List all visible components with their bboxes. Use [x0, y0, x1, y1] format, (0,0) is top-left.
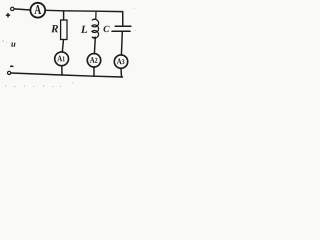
capacitor C bottom plate	[112, 30, 130, 32]
wire: top rail from A to C corner	[45, 10, 122, 11]
label A (ammeter)	[34, 5, 41, 14]
scan speckles	[2, 8, 135, 87]
label u	[11, 43, 15, 47]
label A3	[117, 58, 125, 64]
ammeter A2	[87, 54, 100, 67]
wire: R branch top stub	[63, 11, 65, 20]
ammeter A3	[114, 55, 127, 68]
label -	[10, 65, 13, 67]
wire: top terminal to ammeter A	[14, 9, 30, 10]
label A2	[90, 57, 98, 63]
terminal circle + (top-left)	[11, 7, 14, 10]
terminal circle - (bottom-left)	[8, 71, 11, 74]
wire: bottom rail	[11, 73, 123, 77]
label L	[81, 26, 87, 33]
label A1	[57, 56, 64, 62]
wire: L branch top stub + inductor L coil	[92, 11, 99, 38]
label +	[6, 13, 10, 17]
resistor R	[61, 20, 67, 40]
wire: L bottom to A2	[93, 37, 96, 53]
wire: A3 bottom stub to rail	[120, 68, 123, 77]
wire: A1 bottom stub to rail	[61, 66, 63, 75]
label R	[51, 25, 58, 32]
ammeter A1	[55, 52, 69, 66]
wire: C bottom to A3	[120, 32, 123, 55]
ammeter U1 A	[30, 3, 45, 18]
wire: A2 bottom stub to rail	[93, 67, 95, 76]
wire: R bottom to A1	[62, 40, 63, 53]
wire: C branch top stub	[122, 12, 124, 27]
label C	[103, 26, 109, 32]
capacitor C top plate	[115, 25, 131, 27]
